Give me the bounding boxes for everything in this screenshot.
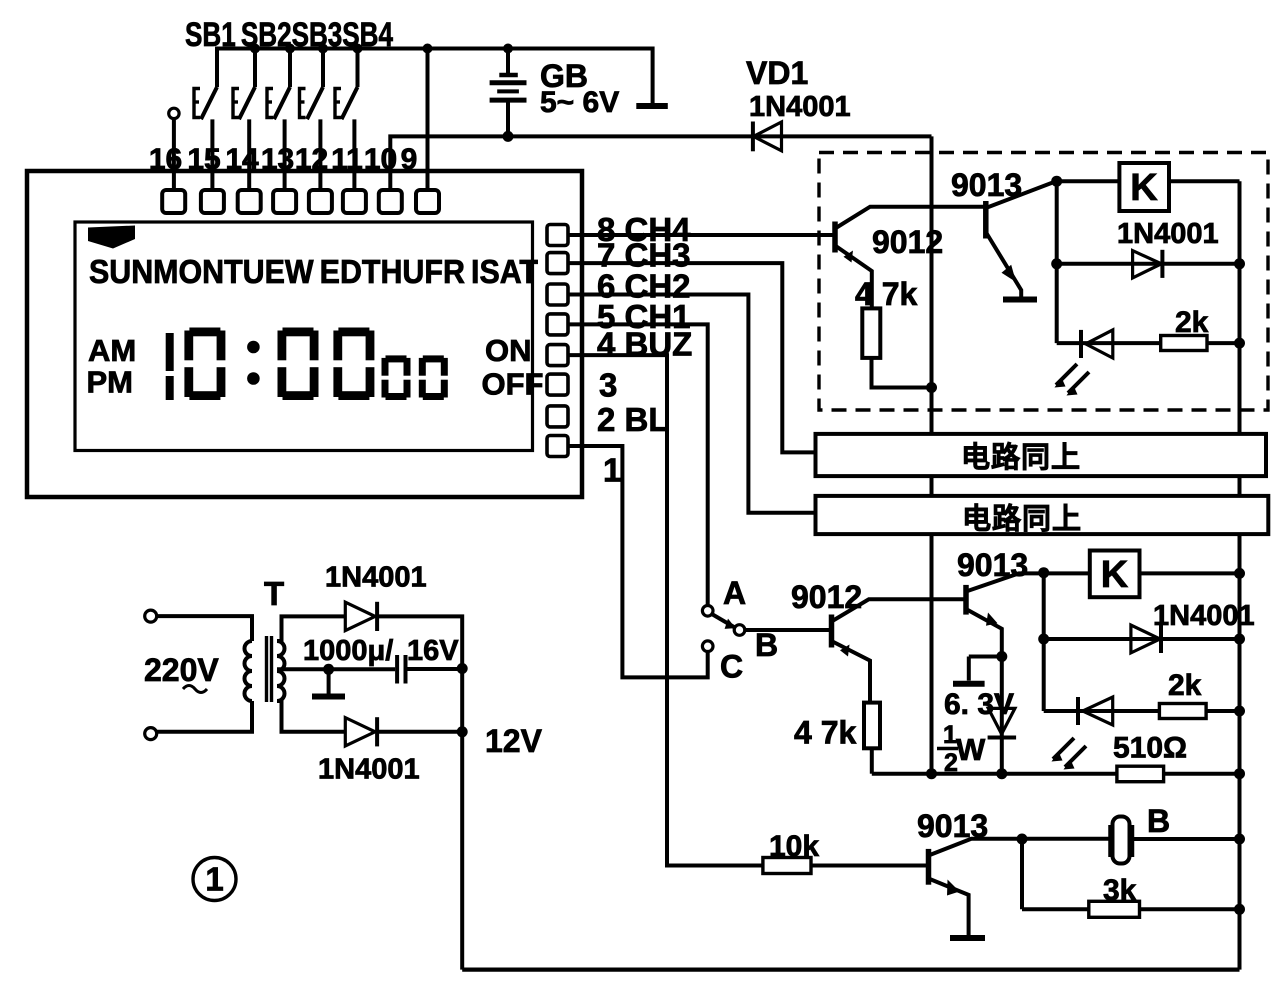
svg-text:VD1: VD1 xyxy=(746,55,808,91)
svg-text:ON: ON xyxy=(485,333,532,368)
svg-text:9012: 9012 xyxy=(872,224,943,260)
svg-text:5~ 6V: 5~ 6V xyxy=(540,86,619,119)
svg-text:OFF: OFF xyxy=(482,367,544,402)
svg-text:9013: 9013 xyxy=(951,167,1022,203)
svg-text:PM: PM xyxy=(87,365,134,400)
svg-text:9013: 9013 xyxy=(917,808,988,844)
svg-text:9013: 9013 xyxy=(957,547,1028,583)
svg-text:W: W xyxy=(956,732,986,767)
svg-text:1: 1 xyxy=(603,451,621,488)
svg-text:B: B xyxy=(1147,803,1170,839)
svg-text:1: 1 xyxy=(205,861,223,898)
svg-text:10k: 10k xyxy=(769,830,819,863)
svg-text:1N4001: 1N4001 xyxy=(1153,600,1255,632)
svg-text:A: A xyxy=(723,575,746,611)
svg-text:4 7k: 4 7k xyxy=(794,715,856,751)
svg-text:510Ω: 510Ω xyxy=(1113,732,1187,765)
svg-text:SUNMONTUEW EDTHUFR ISAT: SUNMONTUEW EDTHUFR ISAT xyxy=(89,253,538,290)
svg-text:9012: 9012 xyxy=(791,579,862,615)
svg-text:电路同上: 电路同上 xyxy=(961,441,1081,474)
svg-text:K: K xyxy=(1130,167,1158,209)
svg-text:1N4001: 1N4001 xyxy=(318,754,420,786)
svg-text:K: K xyxy=(1101,554,1129,596)
svg-text:4 7k: 4 7k xyxy=(855,276,917,312)
svg-text:1N4001: 1N4001 xyxy=(1117,218,1219,250)
svg-text:220V: 220V xyxy=(144,652,219,688)
svg-text:T: T xyxy=(264,575,284,612)
svg-text:2 BL: 2 BL xyxy=(597,401,669,438)
svg-text:2k: 2k xyxy=(1175,306,1209,339)
svg-text:B: B xyxy=(755,627,778,663)
svg-text:1N4001: 1N4001 xyxy=(325,562,427,594)
svg-text:12V: 12V xyxy=(485,723,543,759)
svg-text:1N4001: 1N4001 xyxy=(749,91,851,123)
svg-text:4 BUZ: 4 BUZ xyxy=(597,326,692,363)
svg-text:C: C xyxy=(720,648,743,684)
svg-text:16V: 16V xyxy=(407,635,459,667)
svg-text:6. 3V: 6. 3V xyxy=(944,688,1014,721)
svg-text:AM: AM xyxy=(88,333,136,368)
svg-text:SB1 SB2SB3SB4: SB1 SB2SB3SB4 xyxy=(185,16,393,54)
svg-text:1000μ/: 1000μ/ xyxy=(303,635,393,667)
svg-text:1: 1 xyxy=(943,721,957,749)
svg-text:2k: 2k xyxy=(1168,669,1202,702)
svg-text:电路同上: 电路同上 xyxy=(962,503,1082,536)
svg-text:3k: 3k xyxy=(1103,874,1137,907)
svg-text:3: 3 xyxy=(599,367,617,404)
